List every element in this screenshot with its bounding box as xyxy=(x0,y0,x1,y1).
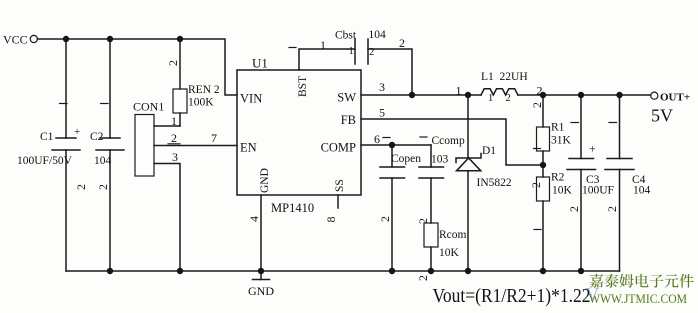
svg-text:5: 5 xyxy=(379,106,385,120)
svg-text:IN5822: IN5822 xyxy=(477,177,512,189)
svg-text:2: 2 xyxy=(74,184,88,190)
svg-text:2: 2 xyxy=(166,60,180,66)
svg-text:EN: EN xyxy=(240,141,257,155)
svg-text:100UF/50V: 100UF/50V xyxy=(17,155,73,167)
svg-text:3: 3 xyxy=(172,150,178,164)
svg-text:WWW.JTMIC.COM: WWW.JTMIC.COM xyxy=(589,291,687,306)
svg-text:2: 2 xyxy=(378,216,392,222)
svg-text:GND: GND xyxy=(248,284,274,298)
svg-text:1: 1 xyxy=(456,84,462,98)
svg-text:1: 1 xyxy=(320,38,326,52)
svg-text:SS: SS xyxy=(334,179,346,192)
svg-text:1: 1 xyxy=(488,93,493,104)
svg-text:10K: 10K xyxy=(439,247,460,259)
svg-text:4: 4 xyxy=(247,216,261,222)
svg-text:1: 1 xyxy=(349,46,354,57)
svg-text:31K: 31K xyxy=(551,135,572,147)
svg-text:D1: D1 xyxy=(482,145,496,157)
svg-text:103: 103 xyxy=(431,154,449,166)
svg-text:2: 2 xyxy=(416,275,430,281)
svg-text:OUT+: OUT+ xyxy=(660,92,690,104)
svg-text:C1: C1 xyxy=(40,131,54,143)
svg-text:R1: R1 xyxy=(551,122,565,134)
svg-text:8: 8 xyxy=(324,217,338,223)
svg-text:Copen: Copen xyxy=(391,153,421,165)
svg-text:R2: R2 xyxy=(551,172,565,184)
svg-text:2: 2 xyxy=(537,84,543,98)
svg-text:FB: FB xyxy=(341,113,356,127)
svg-text:104: 104 xyxy=(633,185,651,197)
svg-text:SW: SW xyxy=(337,91,356,105)
svg-text:5V: 5V xyxy=(651,106,673,126)
svg-text:CON1: CON1 xyxy=(133,100,164,114)
svg-text:100K: 100K xyxy=(188,97,214,109)
svg-text:GND: GND xyxy=(259,168,271,193)
svg-text:2: 2 xyxy=(399,36,405,50)
svg-text:104: 104 xyxy=(369,29,387,41)
svg-text:2: 2 xyxy=(506,93,511,104)
svg-text:6: 6 xyxy=(374,132,380,146)
svg-text:REN 2: REN 2 xyxy=(188,84,220,96)
svg-text:2: 2 xyxy=(369,47,374,58)
svg-text:MP1410: MP1410 xyxy=(271,201,314,215)
svg-text:7: 7 xyxy=(211,131,217,145)
svg-text:1: 1 xyxy=(171,114,177,128)
svg-text:3: 3 xyxy=(379,80,385,94)
svg-text:2: 2 xyxy=(96,184,110,190)
svg-text:Ccomp: Ccomp xyxy=(432,135,465,147)
svg-text:104: 104 xyxy=(94,155,112,167)
svg-text:C2: C2 xyxy=(90,131,104,143)
svg-text:COMP: COMP xyxy=(321,141,356,155)
svg-text:+: + xyxy=(74,126,80,138)
svg-text:2: 2 xyxy=(529,182,543,188)
svg-text:2: 2 xyxy=(605,206,619,212)
svg-text:+: + xyxy=(589,142,596,156)
svg-text:BST: BST xyxy=(297,76,309,97)
svg-text:2: 2 xyxy=(530,102,544,108)
svg-text:2: 2 xyxy=(171,131,177,145)
svg-text:Cbst: Cbst xyxy=(335,30,357,42)
svg-text:100UF: 100UF xyxy=(582,185,614,197)
svg-text:2: 2 xyxy=(567,206,581,212)
svg-text:VCC: VCC xyxy=(3,33,28,47)
svg-text:2: 2 xyxy=(416,218,430,224)
svg-text:Rcom: Rcom xyxy=(439,229,467,241)
svg-text:L1 22UH: L1 22UH xyxy=(481,71,528,83)
svg-text:U1: U1 xyxy=(252,56,268,71)
svg-text:10K: 10K xyxy=(552,185,573,197)
svg-text:VIN: VIN xyxy=(240,92,262,106)
svg-text:Vout=(R1/R2+1)*1.22: Vout=(R1/R2+1)*1.22 xyxy=(433,285,591,307)
